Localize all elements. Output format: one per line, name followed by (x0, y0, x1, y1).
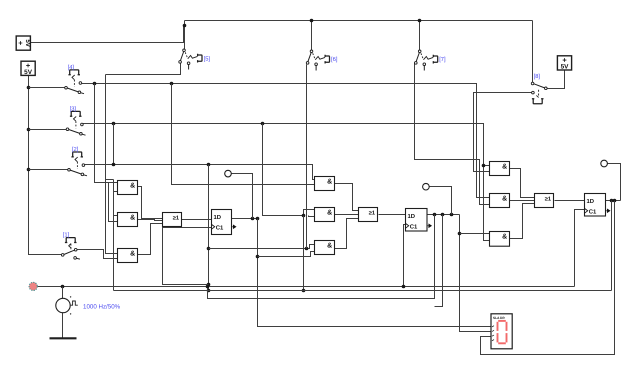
node rail S2 tap (27, 168, 31, 172)
wire FF3 C1 clock feed (575, 210, 585, 287)
OR gate OR2 (359, 208, 378, 222)
node Q2 busC junction (433, 213, 437, 217)
wire top bus drop to switch S6 (311, 21, 313, 51)
AND gate G3 (118, 249, 138, 263)
wire R2 out to OR3 input B (510, 200, 535, 202)
node bus83 x95 junction (93, 82, 97, 86)
switch S7 (415, 50, 438, 71)
svg-text:≥1: ≥1 (545, 196, 551, 202)
wire FF1 C1 clock feed (163, 228, 212, 285)
svg-text:5V: 5V (561, 64, 570, 71)
wire FF1 Q down to display pin1 (258, 219, 491, 327)
node rail S3 tap (27, 128, 31, 132)
wire M1 out to OR2 input A (335, 184, 359, 211)
wire x172 down to M1 input B (172, 84, 315, 185)
node Q2 aux junction (441, 213, 445, 217)
wire Q2 tap to R3 input A (460, 233, 490, 235)
node x208 M3 tap (207, 247, 211, 251)
wire FF2 C1 clock feed (404, 225, 406, 287)
wire clock bottom pin (62, 313, 64, 339)
node x303 bus B junction (302, 289, 306, 293)
wire top bus drop to switch S7 (419, 21, 421, 51)
svg-text:&: & (130, 183, 135, 190)
node x208 bus B junction (207, 289, 211, 293)
node Q3 wrap junction (613, 199, 617, 203)
node bus124 x113 junction (112, 122, 116, 126)
wire OR3 out to FF3 D (555, 200, 585, 202)
wire x262 down to M2 input A (263, 124, 315, 216)
svg-text:1D: 1D (408, 213, 416, 220)
switch S5 (179, 49, 202, 70)
wire V1 +5V to top bus (31, 26, 184, 43)
wire FF2 Q output (427, 214, 460, 216)
wire S5 throw down-left to x105 rail (106, 64, 181, 75)
node V1 junction (183, 24, 187, 28)
seven segment display (491, 314, 512, 349)
node bus83 x172 junction (170, 82, 174, 86)
wire R1 out to OR3 input A (510, 169, 535, 198)
switch S2 (68, 152, 87, 176)
wire x113 rail down to bottom bus B (113, 180, 115, 291)
wire x95 down to G1 input A (95, 84, 118, 183)
node x208 clock jog junction (207, 283, 211, 287)
wire top bus drop to switch S8 (532, 21, 534, 83)
AND gate M2 (315, 208, 335, 222)
probe P1 (225, 170, 232, 177)
node S2 wire x113 junction (112, 163, 116, 167)
wire rail to S4 pole (29, 87, 65, 89)
wire M2 out to OR2 input B (335, 214, 359, 216)
wire bus124 branch to R1 input A (484, 165, 490, 167)
wire top bus drop to switch S5 (184, 21, 186, 50)
AND gate G2 (118, 213, 138, 227)
voltage source V3 +5V (557, 56, 571, 71)
svg-text:C1: C1 (589, 209, 597, 216)
svg-text:SLA DP.: SLA DP. (493, 316, 505, 320)
switch S4 (65, 70, 84, 94)
node bus124 branch R1 junction (482, 164, 486, 168)
voltage source V2 +5V (21, 61, 35, 76)
wire V2 down rail (29, 76, 62, 255)
wire top +5V bus (185, 20, 533, 22)
D flip-flop FF1 (212, 210, 236, 235)
node Q3 busB junction (610, 199, 614, 203)
wire bottom bus B (114, 290, 612, 292)
D flip-flop FF3 (585, 194, 610, 217)
AND gate M1 (315, 177, 335, 191)
svg-text:[1]: [1] (63, 231, 70, 238)
svg-text:1D: 1D (214, 214, 222, 221)
svg-text:1000 Hz/50%: 1000 Hz/50% (83, 304, 121, 311)
switch S1 (61, 238, 80, 260)
node S6 line M3 junction (305, 247, 309, 251)
clock source 1000Hz (56, 296, 78, 314)
node busA clock jog junction (206, 285, 210, 289)
svg-text:1D: 1D (587, 198, 595, 205)
wire S8 throw to R1 input B (474, 93, 532, 172)
switch S3 (66, 111, 85, 135)
ground (50, 337, 77, 339)
AND gate R2 (490, 194, 510, 208)
node Q2 probe junction (450, 213, 454, 217)
svg-text:≥1: ≥1 (173, 215, 179, 221)
AND gate R1 (490, 162, 510, 176)
node S2 wire x208 junction (207, 163, 211, 167)
svg-text:≥1: ≥1 (369, 210, 375, 216)
wire Q1 tap to M3 input B (258, 252, 315, 257)
wire M3 input A feed (209, 245, 315, 249)
wire x108 branch to G2 input B (109, 183, 118, 222)
switch S6 (306, 50, 329, 71)
svg-text:[6]: [6] (331, 56, 338, 63)
wire Q2 aux drop (435, 215, 443, 307)
D flip-flop FF2 (406, 209, 432, 232)
wire Q3 wrap to display pin3 (481, 201, 615, 355)
node Q2 R3 tap (458, 232, 462, 236)
svg-text:C1: C1 (216, 225, 224, 232)
svg-text:&: & (327, 179, 332, 186)
wire probe P3 link (608, 164, 621, 201)
wire x208 vertical (208, 165, 210, 291)
wire x303 down to bus B (303, 216, 305, 291)
svg-text:[3]: [3] (70, 105, 77, 112)
AND gate M3 (315, 241, 335, 255)
wire G2 out to OR1 input B (138, 220, 163, 221)
node FF1 Q probe junction (251, 217, 255, 221)
wire G3 out to OR1 input C (138, 224, 163, 255)
svg-text:[5]: [5] (204, 55, 211, 62)
wire R3 out to OR3 input C (510, 204, 535, 239)
wire hook x105 to x113 rail (106, 179, 114, 181)
wire x113 tap to G1 input B (114, 191, 118, 193)
svg-text:C1: C1 (410, 224, 418, 231)
wire Q3 down to bus B (611, 201, 613, 291)
wire OR2 out to FF2 D (379, 214, 406, 216)
wire OR1 out to FF1 D (182, 219, 212, 221)
svg-text:+: + (18, 39, 23, 48)
svg-text:[2]: [2] (72, 146, 79, 153)
probe P2 (423, 183, 430, 190)
wire busC link (208, 215, 435, 299)
wire S8 pole to V3 (548, 71, 565, 89)
wire S1 output to G3 input B (77, 250, 118, 259)
svg-text:[4]: [4] (68, 64, 75, 71)
svg-text:5V: 5V (24, 69, 33, 76)
node Q1 M3 tap (256, 255, 260, 259)
wire x113 upper link (113, 124, 115, 165)
svg-text:&: & (502, 196, 507, 203)
node bus124 x262 junction (261, 122, 265, 126)
wire FF1 Q output (232, 218, 258, 220)
node busA FF2 clock junction (402, 285, 406, 289)
svg-text:&: & (502, 234, 507, 241)
svg-text:&: & (502, 164, 507, 171)
wire probe P1 link (232, 174, 253, 219)
svg-text:&: & (327, 243, 332, 250)
OR gate OR1 (163, 213, 182, 227)
wire rail to S3 pole (29, 129, 67, 131)
wire S4 output bus y83 to R2 input A (82, 84, 490, 198)
wire x105 rail down to G3 input A (106, 75, 118, 254)
node clock junction (61, 285, 65, 289)
AND gate R3 (490, 232, 510, 247)
node rail S4 tap (27, 86, 31, 90)
node FF1 Q down junction (256, 217, 260, 221)
wire S2 output to M1 input A (85, 165, 315, 180)
wire FF3 Q output (605, 200, 621, 202)
node x303 hook junction (302, 214, 306, 218)
wire S7 down across to R2 input B (415, 63, 490, 205)
AND gate G1 (118, 181, 138, 195)
red node probe (29, 282, 37, 290)
svg-text:5V: 5V (24, 39, 31, 47)
node top bus S6 junction (310, 19, 314, 23)
wire S3 output bus y124 to R3 input B (83, 124, 490, 241)
wire rail to S2 pole (29, 169, 68, 171)
wire probe P2 link (430, 187, 452, 215)
wire x113 tap to G2 input A (114, 215, 118, 217)
probe P3 (601, 160, 608, 167)
wire Q2 down to R3 and display pin2 (460, 215, 491, 332)
wire G1 out to OR1 input A (138, 187, 163, 219)
switch S8 (531, 82, 547, 104)
OR gate OR3 (535, 194, 554, 208)
node top bus S7 junction (418, 19, 422, 23)
svg-text:&: & (130, 215, 135, 222)
svg-text:&: & (327, 210, 332, 217)
wire S6 down to M3 feed (306, 65, 308, 249)
wire clock top pin (62, 287, 64, 299)
svg-text:&: & (130, 251, 135, 258)
svg-text:[7]: [7] (439, 56, 446, 63)
wire clock bus A (38, 286, 575, 288)
wire M2 input B stub (309, 216, 315, 217)
voltage source V1 +5V (16, 36, 31, 50)
wire M3 out to OR2 input C (335, 219, 359, 249)
svg-text:[8]: [8] (534, 73, 541, 80)
